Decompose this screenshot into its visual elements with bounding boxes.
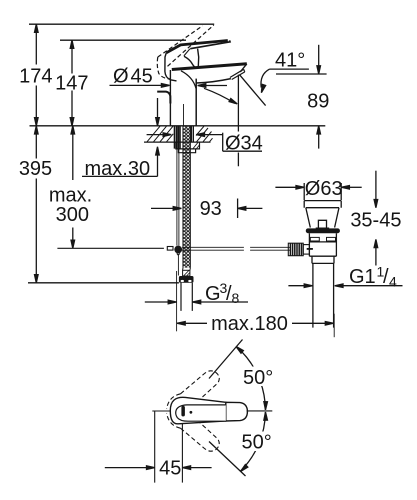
svg-text:Ø: Ø <box>113 65 129 87</box>
dimension 35-45 <box>350 171 401 266</box>
pull rod knob behind body <box>157 92 170 104</box>
dimension max.30 <box>82 98 159 180</box>
drain tailpipe <box>313 263 334 327</box>
deck hatching left <box>147 126 173 142</box>
dimension 89 <box>307 45 329 149</box>
svg-text:89: 89 <box>307 90 329 112</box>
upper 50° arc with arrows <box>235 345 268 410</box>
svg-text:174: 174 <box>19 65 52 87</box>
rod ball joint <box>174 246 182 254</box>
dimension Ø63 <box>275 178 361 200</box>
lower 50° label <box>239 431 276 453</box>
faucet body front curve <box>181 71 196 89</box>
top view: dashed handle rotated down <box>167 413 220 451</box>
svg-text:35-45: 35-45 <box>350 209 401 231</box>
handle base front edge <box>198 49 199 67</box>
svg-text:50°: 50° <box>242 431 272 453</box>
label Ø34 with leader and arrows <box>147 132 263 154</box>
braided hose <box>183 126 191 268</box>
handle lever tip and bottom <box>190 40 230 48</box>
dimension 395 <box>19 126 52 283</box>
reference line deck surface <box>30 125 326 127</box>
reference line hose bottom (395 level) <box>28 282 179 284</box>
svg-text:147: 147 <box>55 73 88 95</box>
svg-text:41°: 41° <box>275 49 305 71</box>
upper 50° label <box>241 367 277 389</box>
top view: center line right <box>247 410 273 412</box>
svg-text:4: 4 <box>389 274 397 290</box>
faucet body center line <box>183 104 185 126</box>
label 41° with curved leader <box>260 49 309 93</box>
svg-text:Ø63: Ø63 <box>305 178 343 200</box>
handle knob front curve <box>184 56 196 68</box>
dashed handle raised edge 1 <box>158 26 203 57</box>
reference line spout top (147 level) <box>60 39 186 41</box>
horizontal pop-up rod right <box>182 247 291 250</box>
deck slab bottom line <box>144 141 211 143</box>
drain body lower <box>312 256 334 263</box>
svg-text:45: 45 <box>131 65 153 87</box>
lower 50° arc with arrows <box>239 412 267 473</box>
shank vertical bars <box>174 126 193 149</box>
rod knurled adjuster <box>288 243 313 256</box>
top view: pull wire left of handle <box>152 411 171 483</box>
drain body upper <box>309 233 336 256</box>
dashed handle raised back edge <box>157 57 171 79</box>
dimension max.180 <box>177 313 334 337</box>
aerator <box>230 69 245 79</box>
top view: solid handle outline <box>170 397 247 424</box>
deck hatching right <box>196 126 213 142</box>
label G3/8 with arrows <box>145 280 248 306</box>
rod connector <box>167 247 173 251</box>
spout underside <box>196 79 231 83</box>
faucet body left edge <box>169 70 171 126</box>
svg-text:50°: 50° <box>243 367 273 389</box>
hose nut lower <box>179 276 194 283</box>
drain flange cylinder <box>304 201 341 208</box>
max.180 left extension line <box>176 271 178 331</box>
svg-text:45: 45 <box>159 457 181 479</box>
label G1 1/4 with arrows <box>288 264 402 290</box>
svg-text:G1: G1 <box>349 266 376 288</box>
spout top edge <box>172 64 247 70</box>
dimension 174 <box>19 24 52 126</box>
hose end transition <box>183 268 191 271</box>
aerator axis vertical line <box>237 75 239 167</box>
drain valve stem <box>316 220 330 228</box>
drain funnel sides <box>306 208 339 228</box>
svg-text:G: G <box>205 283 221 305</box>
water stream diagonal <box>239 75 265 106</box>
G3/8 connector pipe <box>181 283 192 311</box>
svg-text:395: 395 <box>19 158 52 180</box>
nut lower step <box>178 149 195 153</box>
top view: lower diagonal (50° limit) <box>209 442 246 477</box>
top view: upper diagonal (50° limit) <box>209 340 243 379</box>
drain seal black band <box>306 228 340 233</box>
horizontal pop-up rod left <box>57 247 163 249</box>
handle knob outline <box>165 53 177 81</box>
reference line top (174 level) <box>29 23 214 25</box>
mounting nut <box>176 142 200 149</box>
top view: dashed handle rotated up <box>167 371 220 409</box>
label Ø45 with arrows <box>110 65 228 87</box>
dimension 147 <box>55 40 88 126</box>
dashed handle raised edge 2 <box>168 25 214 66</box>
stream angle arc with arrow <box>204 88 238 105</box>
hose nut upper <box>183 270 190 276</box>
spout tip <box>240 64 247 72</box>
faucet body right edge <box>195 79 197 126</box>
ball clevis <box>177 253 180 255</box>
rod lower end <box>177 255 179 276</box>
dimension max.300 <box>49 126 92 249</box>
top view: handle knob marks <box>181 406 192 417</box>
handle lever blade top <box>166 41 228 53</box>
handle blade underside link <box>184 49 190 56</box>
svg-text:93: 93 <box>200 198 222 220</box>
dimension 93 <box>151 198 262 220</box>
svg-text:Ø34: Ø34 <box>225 132 263 154</box>
reference line spout outlet (89 top level) <box>276 73 327 75</box>
svg-text:300: 300 <box>56 204 89 226</box>
svg-text:max.180: max.180 <box>211 313 288 335</box>
svg-text:8: 8 <box>232 290 240 306</box>
pop-up vertical rod <box>177 126 179 246</box>
dimension 45 <box>105 424 212 483</box>
